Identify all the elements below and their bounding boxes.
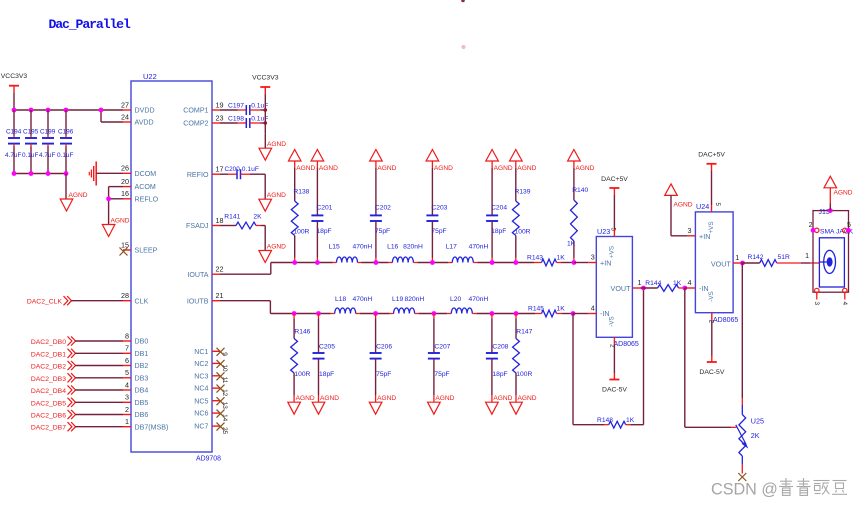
connector J13 SMA JACK body [813, 209, 854, 292]
svg-text:FSADJ: FSADJ [186, 222, 209, 230]
svg-text:DB1: DB1 [135, 350, 149, 358]
capacitor C205 18pF [313, 314, 336, 403]
svg-text:AGND: AGND [319, 165, 338, 172]
capacitor C196 0.1uF [57, 110, 74, 174]
svg-text:AGND: AGND [69, 192, 88, 199]
svg-text:19: 19 [216, 100, 224, 109]
wire to AGND below cap bank [65, 174, 67, 200]
svg-text:L17: L17 [446, 244, 457, 251]
svg-text:16: 16 [121, 189, 129, 198]
no-connect X on NC5 [217, 397, 225, 405]
pin 16 REFLO (U22 left) [121, 189, 159, 203]
resistor R139 100R [512, 161, 530, 263]
svg-text:C195: C195 [23, 129, 39, 136]
pin 4 -IN U23 [588, 304, 596, 314]
svg-text:C200: C200 [225, 166, 241, 173]
pin 22 IOUTA (U22 right) [187, 265, 223, 279]
svg-text:C199: C199 [40, 129, 56, 136]
pin 3 +IN U23 [588, 253, 596, 263]
pin 15 SLEEP (U22 left) [121, 240, 158, 254]
pin 1 VOUT U23 [632, 278, 641, 288]
no-connect X on pin 15 SLEEP [120, 248, 128, 256]
svg-text:470nH: 470nH [353, 244, 373, 251]
capacitor C199 4.7uF [39, 110, 56, 174]
ground AGND above C202 [370, 150, 397, 173]
wire AVDD branch [100, 110, 102, 122]
svg-text:0.1uF: 0.1uF [242, 166, 259, 173]
inductor L20 470nH [447, 296, 488, 314]
svg-text:R141: R141 [224, 213, 240, 220]
pin 24 AVDD (U22 left) [121, 112, 154, 126]
svg-text:DVDD: DVDD [135, 107, 155, 115]
svg-text:1K: 1K [626, 417, 635, 424]
wire VOUT U24 to R142 [741, 262, 760, 264]
ground AGND above C203 [426, 150, 453, 173]
svg-text:0.1uF: 0.1uF [57, 152, 73, 159]
junction C203 / rail A [430, 260, 435, 265]
svg-text:AGND: AGND [296, 165, 315, 172]
ground AGND above R139 [510, 150, 537, 173]
capacitor C200 0.1uF on REFIO [220, 166, 265, 179]
svg-text:4.7uF: 4.7uF [5, 152, 21, 159]
svg-text:U24: U24 [696, 202, 709, 211]
wire VOUT U23 to R144 [640, 287, 657, 289]
capacitor C198 0.1uF on COMP2 [220, 115, 268, 128]
resistor R148 1K (feedback U23) [597, 417, 635, 428]
svg-text:C196: C196 [58, 129, 74, 136]
svg-text:DAC2_DB5: DAC2_DB5 [31, 400, 66, 407]
pin 2 -VS U23 [609, 337, 616, 348]
svg-text:2K: 2K [253, 213, 262, 220]
wire artifact dot (faint) [462, 45, 466, 49]
port DAC2_DB4 [31, 385, 123, 395]
pin 12 NC4 (U22 right) [194, 385, 228, 397]
pin 10 NC2 (U22 right) [194, 360, 228, 372]
svg-text:DAC+5V: DAC+5V [601, 176, 628, 183]
svg-text:+VS: +VS [708, 221, 715, 233]
svg-text:L16: L16 [387, 244, 398, 251]
svg-text:26: 26 [121, 164, 129, 173]
wire artifact dot (top edge) [461, 0, 465, 2]
svg-text:470nH: 470nH [469, 244, 489, 251]
svg-text:C197: C197 [228, 102, 244, 109]
port DAC2_DB7 [31, 422, 123, 432]
pin 5 +VS U24 [712, 203, 721, 212]
svg-text:DAC2_DB1: DAC2_DB1 [31, 351, 66, 358]
svg-text:COMP1: COMP1 [183, 107, 208, 115]
svg-text:DCOM: DCOM [135, 170, 157, 178]
wire IOUTA to filter rail [220, 273, 271, 275]
pin 2 -VS U24 [707, 313, 714, 324]
svg-text:820nH: 820nH [403, 244, 423, 251]
wire VCC3V3/COMP vertical [264, 95, 266, 134]
power DAC+5V (U24) [698, 152, 725, 172]
svg-text:NC7: NC7 [194, 423, 208, 431]
svg-text:75pF: 75pF [375, 228, 390, 235]
pin 6 DB2 (U22 left) [123, 356, 148, 370]
port DAC2_DB3 [31, 373, 123, 383]
svg-text:AGND: AGND [493, 395, 512, 402]
svg-text:23: 23 [216, 113, 224, 122]
wire DAC2_DB2 to U22 [75, 365, 123, 367]
svg-text:C208: C208 [492, 344, 508, 351]
wire rail A segments [271, 262, 333, 264]
svg-text:1: 1 [805, 253, 809, 260]
resistor R141 2K on FSADJ [220, 213, 265, 229]
svg-text:2: 2 [125, 405, 129, 414]
power DAC+5V (U23) [601, 176, 628, 195]
op-amp U23 AD8065 body [596, 227, 639, 348]
pin 28 CLK (U22 left) [121, 291, 149, 305]
potentiometer U25 2K [736, 405, 764, 474]
wire DAC2_DB6 to U22 [75, 414, 123, 416]
wire cap-bank ground bus [14, 173, 66, 175]
svg-text:AGND: AGND [518, 395, 537, 402]
no-connect X on NC4 [217, 385, 225, 393]
wire DAC2_DB5 to U22 [75, 401, 123, 403]
ground AGND below R146 [288, 395, 315, 414]
op-amp / DAC IC U22 AD9708 body [131, 72, 221, 463]
svg-text:0.1uF: 0.1uF [22, 152, 38, 159]
svg-text:R138: R138 [293, 189, 309, 196]
svg-text:R142: R142 [748, 254, 764, 261]
pin 4 DB4 (U22 left) [123, 380, 148, 394]
pin 4 SMA [841, 288, 848, 305]
svg-text:AGND: AGND [575, 165, 594, 172]
svg-text:IOUTA: IOUTA [187, 271, 208, 279]
svg-text:2K: 2K [751, 431, 760, 440]
svg-text:1K: 1K [557, 306, 566, 313]
wire rail B segments [270, 313, 330, 315]
pin 27 DVDD (U22 left) [121, 100, 155, 114]
svg-text:SLEEP: SLEEP [135, 247, 158, 255]
pin 3 SMA [813, 288, 820, 305]
svg-text:C207: C207 [434, 344, 450, 351]
power VCC3V3 (left) [1, 73, 28, 93]
svg-text:L15: L15 [329, 244, 340, 251]
svg-text:AGND: AGND [377, 395, 396, 402]
svg-text:4: 4 [688, 278, 692, 287]
svg-text:8: 8 [125, 331, 129, 340]
pin 8 DB0 (U22 left) [123, 331, 148, 345]
wire into AGND (COMP) [264, 134, 266, 148]
ground AGND below C208 [486, 395, 513, 414]
svg-text:15: 15 [121, 240, 129, 249]
ground AGND (J13) [824, 176, 853, 196]
svg-text:AGND: AGND [267, 192, 286, 199]
svg-text:U25: U25 [751, 416, 764, 425]
svg-text:18pF: 18pF [492, 371, 507, 378]
svg-text:DAC-5V: DAC-5V [602, 387, 627, 394]
svg-text:100R: 100R [294, 371, 310, 378]
svg-text:Dac_Parallel: Dac_Parallel [49, 17, 131, 32]
svg-text:AGND: AGND [267, 141, 286, 148]
watermark CSDN @qingqingwandou [711, 478, 847, 498]
wire DAC+5V to U24 pin5 [711, 171, 713, 205]
wire ACOM/REFLO tie [109, 186, 123, 188]
capacitor C206 75pF [370, 314, 393, 403]
svg-text:-VS: -VS [609, 316, 616, 327]
ground AGND below C206 [369, 395, 396, 414]
svg-text:REFLO: REFLO [135, 195, 159, 203]
svg-text:AGND: AGND [435, 395, 454, 402]
svg-text:AGND: AGND [517, 165, 536, 172]
svg-text:C198: C198 [228, 115, 244, 122]
svg-text:5: 5 [125, 368, 129, 377]
svg-text:21: 21 [216, 291, 224, 300]
svg-text:R139: R139 [515, 189, 531, 196]
ground AGND (FSADJ) [259, 243, 286, 262]
inductor L19 820nH [390, 296, 425, 314]
svg-text:AGND: AGND [674, 202, 693, 209]
wire DAC2_DB0 to U22 [75, 340, 123, 342]
svg-text:AGND: AGND [267, 243, 286, 250]
svg-text:AGND: AGND [320, 395, 339, 402]
svg-text:R145: R145 [528, 306, 544, 313]
svg-text:DAC2_DB7: DAC2_DB7 [31, 425, 66, 432]
inductor L16 820nH [387, 244, 423, 263]
svg-text:AD8065: AD8065 [614, 341, 639, 348]
no-connect X on NC2 [217, 360, 225, 368]
svg-text:4: 4 [125, 380, 129, 389]
svg-text:18: 18 [216, 216, 224, 225]
svg-text:DB3: DB3 [135, 374, 149, 382]
svg-text:DAC2_CLK: DAC2_CLK [27, 299, 63, 306]
wire R144 to -IN U24 [685, 287, 688, 289]
svg-text:1: 1 [735, 253, 739, 262]
resistor R144 1K (series U23->U24) [645, 280, 684, 291]
svg-text:NC6: NC6 [194, 410, 208, 418]
svg-text:AD8065: AD8065 [713, 317, 738, 324]
pin 18 FSADJ (U22 right) [186, 216, 223, 230]
svg-text:CSDN @: CSDN @ [711, 480, 778, 498]
svg-text:C201: C201 [316, 205, 332, 212]
svg-text:REFIO: REFIO [187, 171, 209, 179]
op-amp U24 AD8065 body [695, 202, 738, 324]
svg-text:2: 2 [707, 320, 714, 324]
svg-text:IOUTB: IOUTB [187, 297, 209, 305]
ground AGND below R147 [510, 395, 537, 414]
svg-text:R148: R148 [597, 417, 613, 424]
svg-text:VOUT: VOUT [611, 284, 632, 293]
svg-text:NC3: NC3 [194, 372, 208, 380]
junction VOUT U23 node [641, 286, 646, 291]
junction R138 / rail A [292, 260, 297, 265]
ground AGND (COMP bypass) [259, 141, 286, 160]
svg-text:75pF: 75pF [434, 371, 449, 378]
capacitor C203 75pF [426, 161, 447, 263]
wire VOUT U24 node down to U25 [741, 263, 743, 398]
junction C205 / rail B [316, 311, 321, 316]
svg-text:DB2: DB2 [135, 362, 149, 370]
port DAC2_DB2 [31, 361, 123, 371]
junction C206 / rail B [373, 311, 378, 316]
junction dots on VCC3V3 bus [12, 108, 104, 113]
svg-text:R146: R146 [294, 329, 310, 336]
svg-text:NC2: NC2 [194, 360, 208, 368]
capacitor C202 75pF [370, 161, 391, 263]
pin 1 VOUT U24 [733, 253, 741, 263]
junction R146 / rail B [292, 311, 297, 316]
svg-text:20: 20 [121, 177, 129, 186]
svg-text:DAC2_DB2: DAC2_DB2 [31, 364, 66, 371]
pin 25 NC7 (U22 right) [194, 423, 228, 435]
svg-text:470nH: 470nH [469, 296, 489, 303]
svg-text:1K: 1K [567, 241, 576, 248]
svg-text:U23: U23 [597, 227, 610, 236]
junction C201 / rail A [315, 260, 320, 265]
wire FSADJ to AGND [264, 226, 266, 251]
ground AGND (REFIO) [259, 192, 286, 211]
junction C202 / rail A [374, 260, 379, 265]
svg-text:1: 1 [125, 417, 129, 426]
svg-text:1: 1 [638, 278, 642, 287]
svg-text:1K: 1K [673, 280, 682, 287]
port DAC2_DB5 [31, 398, 123, 408]
svg-text:DB5: DB5 [135, 399, 149, 407]
svg-text:5: 5 [609, 228, 616, 232]
capacitor C197 0.1uF on COMP1 [220, 102, 268, 115]
svg-text:7: 7 [125, 344, 129, 353]
inductor L15 470nH [329, 244, 373, 263]
capacitor C204 18pF [486, 161, 507, 263]
resistor R146 100R [291, 314, 311, 403]
junction VOUT U24 node [740, 261, 745, 266]
svg-text:4: 4 [591, 304, 595, 313]
svg-text:24: 24 [121, 112, 129, 121]
pin 17 REFIO (U22 right) [187, 165, 224, 179]
junction COMP2 node [264, 121, 268, 125]
ground AGND (cap bank) [60, 192, 88, 211]
svg-text:L18: L18 [335, 296, 346, 303]
wire feedback loop U23 (-IN node down/right/up) [572, 314, 574, 425]
pin 5 DB3 (U22 left) [123, 368, 148, 382]
svg-text:NC1: NC1 [194, 348, 208, 356]
wire DAC2_DB1 to U22 [75, 352, 123, 354]
resistor R140 1K (to +IN of U23) [567, 161, 588, 263]
svg-text:DB4: DB4 [135, 387, 149, 395]
svg-text:+VS: +VS [609, 246, 616, 258]
svg-text:18pF: 18pF [491, 228, 506, 235]
power DAC-5V (U24) [699, 320, 724, 376]
power VCC3V3 (COMP bypass) [252, 75, 279, 95]
wire REFIO to AGND [264, 174, 266, 199]
svg-text:2: 2 [809, 222, 813, 229]
capacitor C207 75pF [428, 314, 451, 403]
pin 7 DB1 (U22 left) [123, 344, 148, 358]
svg-text:28: 28 [121, 291, 129, 300]
svg-text:51R: 51R [778, 254, 790, 261]
inductor L17 470nH [446, 244, 489, 263]
resistor R143 1K (series, rail A) [527, 255, 565, 266]
svg-text:C204: C204 [491, 205, 507, 212]
svg-text:4: 4 [841, 302, 848, 306]
svg-text:17: 17 [216, 165, 224, 174]
port DAC2_DB6 [31, 410, 123, 420]
svg-text:3: 3 [813, 302, 820, 306]
svg-text:DB7(MSB): DB7(MSB) [135, 423, 169, 431]
svg-text:AGND: AGND [834, 190, 853, 197]
pin 9 NC1 (U22 right) [194, 348, 228, 356]
pin 11 NC3 (U22 right) [194, 372, 228, 383]
wire rail B to -IN U23 [573, 313, 588, 315]
ground AGND above C201 [311, 150, 338, 173]
svg-text:DB6: DB6 [135, 411, 149, 419]
no-connect X on NC6 [217, 410, 225, 418]
svg-text:R147: R147 [516, 329, 532, 336]
junction R147 / rail B [514, 311, 519, 316]
junction R139 / rail A [513, 260, 518, 265]
ground AGND below C205 [312, 395, 339, 414]
svg-text:ACOM: ACOM [135, 183, 156, 191]
svg-text:5: 5 [714, 203, 721, 207]
svg-text:75pF: 75pF [431, 228, 446, 235]
svg-text:VCC3V3: VCC3V3 [252, 75, 279, 82]
ground AGND above R138 [288, 150, 315, 173]
capacitor C195 0.1uF [22, 110, 39, 174]
pin 3 DB5 (U22 left) [123, 393, 148, 407]
wire DAC2_DB4 to U22 [75, 389, 123, 391]
power DAC-5V (U23) [602, 344, 627, 393]
svg-text:DAC2_DB6: DAC2_DB6 [31, 413, 66, 420]
svg-text:100R: 100R [516, 371, 532, 378]
pin 14 NC6 (U22 right) [194, 410, 228, 422]
wire DAC2_CLK to U22 [71, 300, 123, 302]
junction REFLO node [106, 196, 111, 201]
resistor R138 100R [291, 161, 309, 263]
no-connect X below U25 [738, 473, 746, 481]
junction -IN U24 node [682, 286, 687, 291]
svg-text:DB0: DB0 [135, 338, 149, 346]
svg-text:27: 27 [121, 100, 129, 109]
pin 19 COMP1 (U22 right) [183, 100, 223, 114]
pin 2 SMA [809, 222, 819, 233]
svg-text:18pF: 18pF [319, 371, 334, 378]
junction C204 / rail A [490, 260, 495, 265]
pin 1 DB7(MSB) (U22 left) [123, 417, 168, 431]
pin 26 DCOM (U22 left) [121, 164, 156, 178]
svg-text:DAC2_DB4: DAC2_DB4 [31, 388, 66, 395]
no-connect X on NC1 [217, 348, 225, 356]
no-connect X on NC3 [217, 372, 225, 380]
ground AGND below C207 [428, 395, 455, 414]
resistor R145 1K (series, rail B) [528, 306, 565, 317]
svg-text:AGND: AGND [434, 165, 453, 172]
svg-text:100R: 100R [515, 229, 531, 236]
svg-text:AGND: AGND [494, 165, 513, 172]
pin 5 +VS U23 [609, 228, 616, 237]
junction J13 shield node [828, 208, 833, 213]
inductor L18 470nH [331, 296, 373, 314]
svg-text:DAC+5V: DAC+5V [698, 152, 725, 159]
svg-text:L19: L19 [392, 296, 403, 303]
svg-text:22: 22 [216, 265, 224, 274]
junction C207 / rail B [432, 311, 437, 316]
pin 5 SMA [843, 222, 851, 233]
wire VCC3V3 bus to DVDD [13, 93, 15, 110]
wire IOUTB to filter rail [220, 300, 270, 302]
svg-text:AVDD: AVDD [135, 119, 154, 127]
svg-text:R140: R140 [572, 187, 588, 194]
pin 23 COMP2 (U22 right) [183, 113, 223, 127]
svg-text:4.7uF: 4.7uF [39, 152, 55, 159]
pin 2 DB6 (U22 left) [123, 405, 148, 419]
junction dots cap ground bus [12, 171, 69, 176]
port DAC2_CLK [27, 296, 123, 306]
svg-text:DAC2_DB0: DAC2_DB0 [31, 339, 66, 346]
capacitor C208 18pF [486, 314, 509, 403]
pin 3 +IN U24 [687, 226, 695, 236]
